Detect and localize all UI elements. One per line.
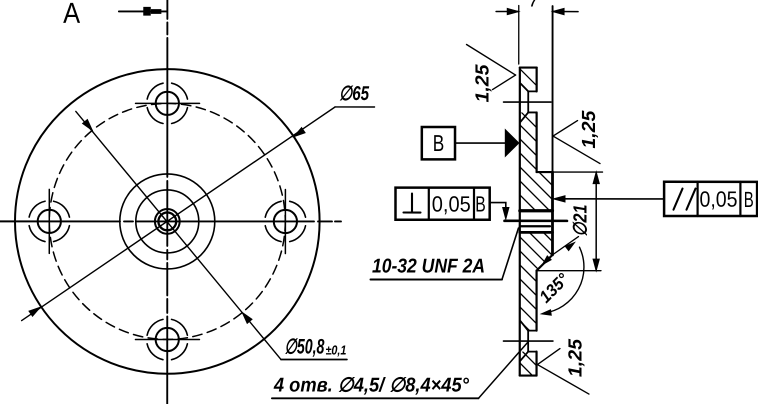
bottom bolt hole: bore top wall (528, 330, 536, 332)
rim right face lower (535, 271, 537, 331)
svg-text:B: B (433, 130, 445, 156)
center bore circle (158, 213, 176, 231)
top bolt hole: upper chamfer (521, 84, 529, 92)
bottom hole (156, 328, 179, 351)
perpendicularity symbol (403, 194, 420, 213)
parallelism frame divider 1 (696, 182, 698, 216)
top bolt hole: bore left edge (527, 91, 529, 112)
flange top edge (520, 66, 537, 68)
datum B leader (455, 142, 505, 144)
outer circle (15, 69, 320, 374)
chamfer label 1,25 bottom-right: leg 2 (537, 365, 589, 395)
svg-text:∅65: ∅65 (339, 83, 370, 105)
holes callout leader (478, 342, 528, 399)
D65 arrow lower-left (29, 305, 42, 317)
thread callout leader (502, 228, 519, 280)
cone face extension line (552, 237, 578, 255)
perpendicularity frame divider 2 (473, 188, 475, 220)
thread minor bottom (520, 225, 550, 227)
angle 135 arc (544, 247, 584, 313)
parallelism leader (556, 198, 664, 200)
bottom bolt hole centerline (503, 340, 553, 342)
chamfer label 1,25 top-left: leg 1 (467, 45, 516, 76)
D65 shelf (335, 106, 375, 108)
dim 7: dimension line left part (496, 11, 519, 13)
hub right face (551, 172, 554, 255)
horizontal centerline of front view (0, 220, 341, 222)
hub chamfer circle (136, 190, 199, 253)
svg-text:1,25: 1,25 (579, 110, 600, 148)
chamfer label 1,25 top-right: leg 2 (553, 136, 600, 164)
dim D21: top extension (553, 171, 603, 173)
right hole center tick (284, 189, 286, 253)
dim D21: dimension line (595, 172, 597, 271)
section arrow head block 1 (143, 7, 151, 16)
flange left face (519, 68, 521, 376)
thread top band (520, 209, 553, 212)
bottom bolt hole: lower chamfer (520, 352, 528, 361)
parallelism frame divider 2 (739, 182, 741, 216)
datum B filled triangle (505, 129, 520, 158)
svg-text:B: B (475, 192, 486, 217)
svg-text:∅21: ∅21 (570, 205, 591, 237)
D50.8 arrow lower-right (240, 310, 252, 323)
bottom hole countersink arcs (147, 319, 187, 359)
section arrow (119, 10, 167, 12)
svg-text:A: A (63, 0, 81, 30)
hub cone face (537, 255, 553, 271)
dim 7: right arrow (553, 8, 565, 14)
parallelism symbol (673, 189, 695, 210)
svg-text:±0,1: ±0,1 (325, 342, 346, 357)
top hole countersink arcs (147, 83, 187, 123)
dimension line D50.8 (diagonal) (76, 111, 281, 359)
dim 7 / hub right extension line (552, 6, 554, 172)
angle 135 arrow lower (541, 310, 551, 317)
chamfer label 1,25 top-left: leg 2 (493, 75, 516, 90)
section arrow head block 2 (151, 9, 162, 14)
bolt circle (dashed) (49, 103, 285, 339)
center thread circle (155, 209, 180, 234)
bottom bolt hole: upper chamfer (520, 321, 528, 331)
svg-text:10-32 UNF 2A: 10-32 UNF 2A (372, 255, 485, 277)
chamfer label 1,25 bottom-right: leg 1 (537, 349, 560, 365)
svg-text:4 отв. ∅4,5/ ∅8,4×45°: 4 отв. ∅4,5/ ∅8,4×45° (273, 374, 470, 396)
top bolt hole: bore bottom wall (528, 111, 536, 113)
hatching (503, 52, 573, 404)
thread major bottom (520, 231, 553, 234)
svg-text:1,25: 1,25 (473, 64, 494, 102)
svg-text:1,25: 1,25 (565, 339, 586, 377)
dimension line D65 (diagonal) (22, 107, 335, 321)
svg-text:∅50,8: ∅50,8 (284, 335, 324, 358)
vertical centerline of front view (166, 0, 168, 404)
svg-text:0,05: 0,05 (432, 192, 471, 217)
rim right face bottom (535, 352, 537, 376)
rim right face middle (536, 112, 538, 172)
top hole center tick (136, 102, 200, 104)
left hole (38, 210, 61, 233)
svg-text:7: 7 (529, 0, 541, 12)
right hole countersink arcs (265, 201, 305, 241)
perpendicularity frame (395, 188, 489, 220)
dim 7: dimension line right part (553, 11, 579, 13)
chamfer label 1,25 top-right: leg 1 (553, 121, 578, 137)
dim 7: left extension line (518, 6, 520, 65)
perpendicularity leader (490, 203, 506, 208)
top bolt hole: lower chamfer (521, 112, 529, 121)
bottom bolt hole: bore left edge (527, 331, 529, 352)
angle 135 arrow upper (565, 240, 576, 250)
bottom bolt hole: bore bottom wall (528, 351, 536, 353)
angle 135 arrow on cone (541, 256, 552, 267)
top hole (156, 92, 179, 115)
D65 arrow upper-right (292, 128, 305, 140)
thread callout underline (370, 278, 501, 280)
right hole (274, 210, 297, 233)
hub top edge (537, 171, 553, 173)
D50.8 arrow upper-left (83, 120, 95, 133)
left hole countersink arcs (29, 201, 69, 241)
side view main centerline (504, 220, 566, 223)
top bolt hole: bore top wall (528, 90, 536, 92)
rim right face upper (536, 68, 538, 92)
hub circle (120, 174, 215, 269)
perpendicularity frame divider 1 (428, 188, 430, 220)
svg-text:B: B (744, 187, 754, 212)
parallelism leader arrow (554, 196, 566, 202)
parallelism frame (664, 182, 757, 216)
datum B box (422, 127, 455, 159)
svg-text:0,05: 0,05 (699, 187, 737, 212)
dim D21: bottom extension (537, 270, 601, 272)
perpendicularity leader arrow (503, 208, 509, 220)
dim 7: left arrow (507, 8, 519, 14)
top bolt hole centerline (504, 101, 552, 103)
flange bottom edge (520, 374, 537, 376)
bottom hole center tick (135, 339, 199, 341)
D50.8 shelf (281, 358, 347, 360)
dim D21: bottom arrow (593, 259, 599, 271)
holes callout underline (272, 397, 478, 399)
left hole center tick (48, 189, 50, 253)
dim D21: top arrow (593, 172, 599, 184)
